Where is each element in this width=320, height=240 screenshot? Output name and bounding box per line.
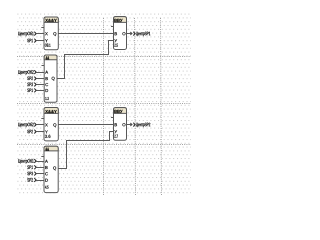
- input flag SP1 (B1 pin Y): [27, 39, 44, 43]
- wire W2: AND4 block B2 output up to timer T1 input Y: [57, 41, 114, 79]
- B1 unconnected stub pin: [41, 27, 44, 29]
- T2 unconnected stub pin: [111, 117, 114, 119]
- B3 pin letter X: [45, 123, 48, 126]
- B2 pin letter B: [46, 77, 48, 80]
- B4 pin letter C: [45, 172, 48, 175]
- B4 pin letter B: [45, 166, 47, 169]
- B2 unconnected stub pin: [42, 65, 45, 67]
- input flag SP2 (B3 pin Y): [27, 130, 44, 134]
- B4 output letter Q: [53, 166, 56, 170]
- input flag SP2 (B4 pin D): [27, 178, 44, 182]
- B4 unconnected stub pin: [41, 156, 44, 158]
- T1 unconnected stub pin: [111, 26, 114, 28]
- block B1: AND (X && Y): [41, 17, 58, 50]
- wire W1: AND block B1 output to timer T1 input B: [58, 33, 113, 35]
- block B4: AND4 (&&) second: [41, 146, 58, 192]
- T1 output letter Q: [122, 32, 125, 35]
- input flag ЦентрОб2 (B2 pin A): [18, 70, 44, 75]
- page boundary dotted line horizontal 3: [17, 144, 191, 146]
- B1 pin letter X: [45, 32, 48, 35]
- B4 bottom label 4.5: [45, 186, 48, 189]
- T2 bottom label 2.7: [114, 135, 117, 138]
- B2 pin letter D: [46, 89, 49, 92]
- B3 bottom label 3.6: [45, 135, 50, 138]
- block B3: AND (X && Y) second: [41, 108, 58, 141]
- T2 pin letter B: [115, 123, 117, 126]
- input flag ЦентрОб1 (B1 pin X): [18, 32, 44, 37]
- B1 pin letter Y: [45, 39, 48, 42]
- wire W4: AND4 block B4 output up to timer T2 input Y: [58, 132, 114, 169]
- B2 output letter Q: [52, 77, 55, 81]
- T2 pin letter Y: [114, 130, 117, 133]
- B3 pin letter Y: [45, 130, 48, 133]
- B4 pin letter D: [45, 179, 48, 182]
- page boundary dotted line horizontal 1: [17, 56, 191, 58]
- page boundary dotted line vertical 3: [161, 18, 162, 195]
- block T1: timer: [111, 17, 127, 50]
- B1 output letter Q: [53, 32, 56, 36]
- B4 pin letter A: [45, 160, 48, 163]
- input flag ЦентрОб2 (B3 pin X): [18, 123, 44, 128]
- input flag SP3 (B2 pin C): [27, 83, 44, 87]
- output flag ЦентрSP2: [127, 123, 151, 128]
- page boundary dotted line vertical 2: [135, 18, 136, 195]
- input flag SP2 (B2 pin B): [27, 77, 44, 81]
- wire W3: AND block B3 output to timer T2 input B: [58, 124, 113, 126]
- B1 bottom label ОБ:1: [45, 44, 51, 47]
- B3 unconnected stub pin: [41, 118, 44, 120]
- input flag SP3 (B4 pin C): [27, 172, 44, 176]
- T1 pin letter Y: [114, 39, 117, 42]
- input flag SP1 (B2 pin D): [27, 89, 44, 93]
- page boundary dotted line horizontal 2: [17, 103, 191, 105]
- block B2: AND4 (&&): [42, 55, 58, 102]
- T2 output letter Q: [122, 123, 125, 126]
- T1 bottom label 2.5: [114, 44, 117, 47]
- B3 output letter Q: [53, 123, 56, 127]
- B2 pin letter C: [45, 83, 48, 86]
- T1 pin letter B: [115, 32, 117, 35]
- output flag ЦентрSP1: [127, 32, 151, 37]
- B2 pin letter A: [45, 71, 48, 74]
- input flag ЦентрОб1 (B4 pin A): [18, 159, 44, 164]
- B2 bottom label 1.3: [45, 97, 48, 100]
- canvas background: [0, 0, 191, 195]
- page boundary dotted line vertical 1: [103, 18, 105, 195]
- input flag SP1 (B4 pin B): [27, 165, 44, 169]
- block T2: timer second: [111, 108, 127, 141]
